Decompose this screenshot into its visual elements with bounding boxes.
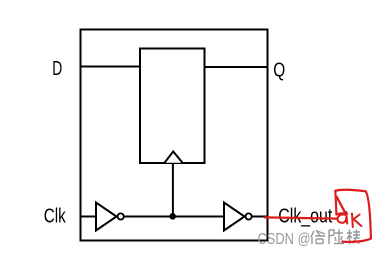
watermark glyph 陆 bbox=[329, 230, 344, 245]
red annotation: hand-drawn box bottom edge bbox=[342, 239, 371, 242]
outer box: flip-flop boundary bbox=[81, 30, 268, 241]
wire: clk between inverters bbox=[125, 216, 225, 218]
svg-text:Q: Q bbox=[273, 60, 285, 82]
red annotation: hand-drawn box right edge bbox=[366, 191, 371, 238]
watermark glyph 拾 bbox=[311, 230, 325, 244]
inverter I2 triangle bbox=[224, 203, 245, 231]
inverter I1 triangle bbox=[96, 203, 117, 231]
svg-text:Clk_out: Clk_out bbox=[278, 206, 332, 228]
junction dot bbox=[169, 213, 176, 220]
svg-text:D: D bbox=[52, 58, 62, 80]
inverter I2 bubble bbox=[246, 213, 252, 219]
wire: Q output line bbox=[205, 66, 268, 68]
clock triangle on latch bbox=[165, 152, 183, 163]
inverter I1 bubble bbox=[118, 213, 124, 219]
wire: Clk input segment bbox=[80, 216, 96, 218]
red annotation: hand-drawn box left edge bbox=[335, 191, 336, 214]
svg-text:CSDN @: CSDN @ bbox=[258, 231, 311, 248]
latch cell U1 rectangle bbox=[140, 49, 205, 164]
red annotation: fold diagonal bbox=[337, 197, 346, 215]
red handwritten letter a bbox=[336, 212, 347, 224]
red annotation: line from clk output bbox=[265, 217, 338, 218]
red annotation: hand-drawn box top edge bbox=[335, 190, 365, 191]
svg-text:Clk: Clk bbox=[44, 206, 67, 228]
red handwritten letter k bbox=[352, 214, 361, 228]
wire: clk output segment bbox=[252, 216, 267, 218]
watermark glyph 楼 bbox=[347, 230, 360, 245]
wire: D input line bbox=[80, 66, 140, 68]
wire: vertical clk to latch bbox=[172, 164, 174, 217]
